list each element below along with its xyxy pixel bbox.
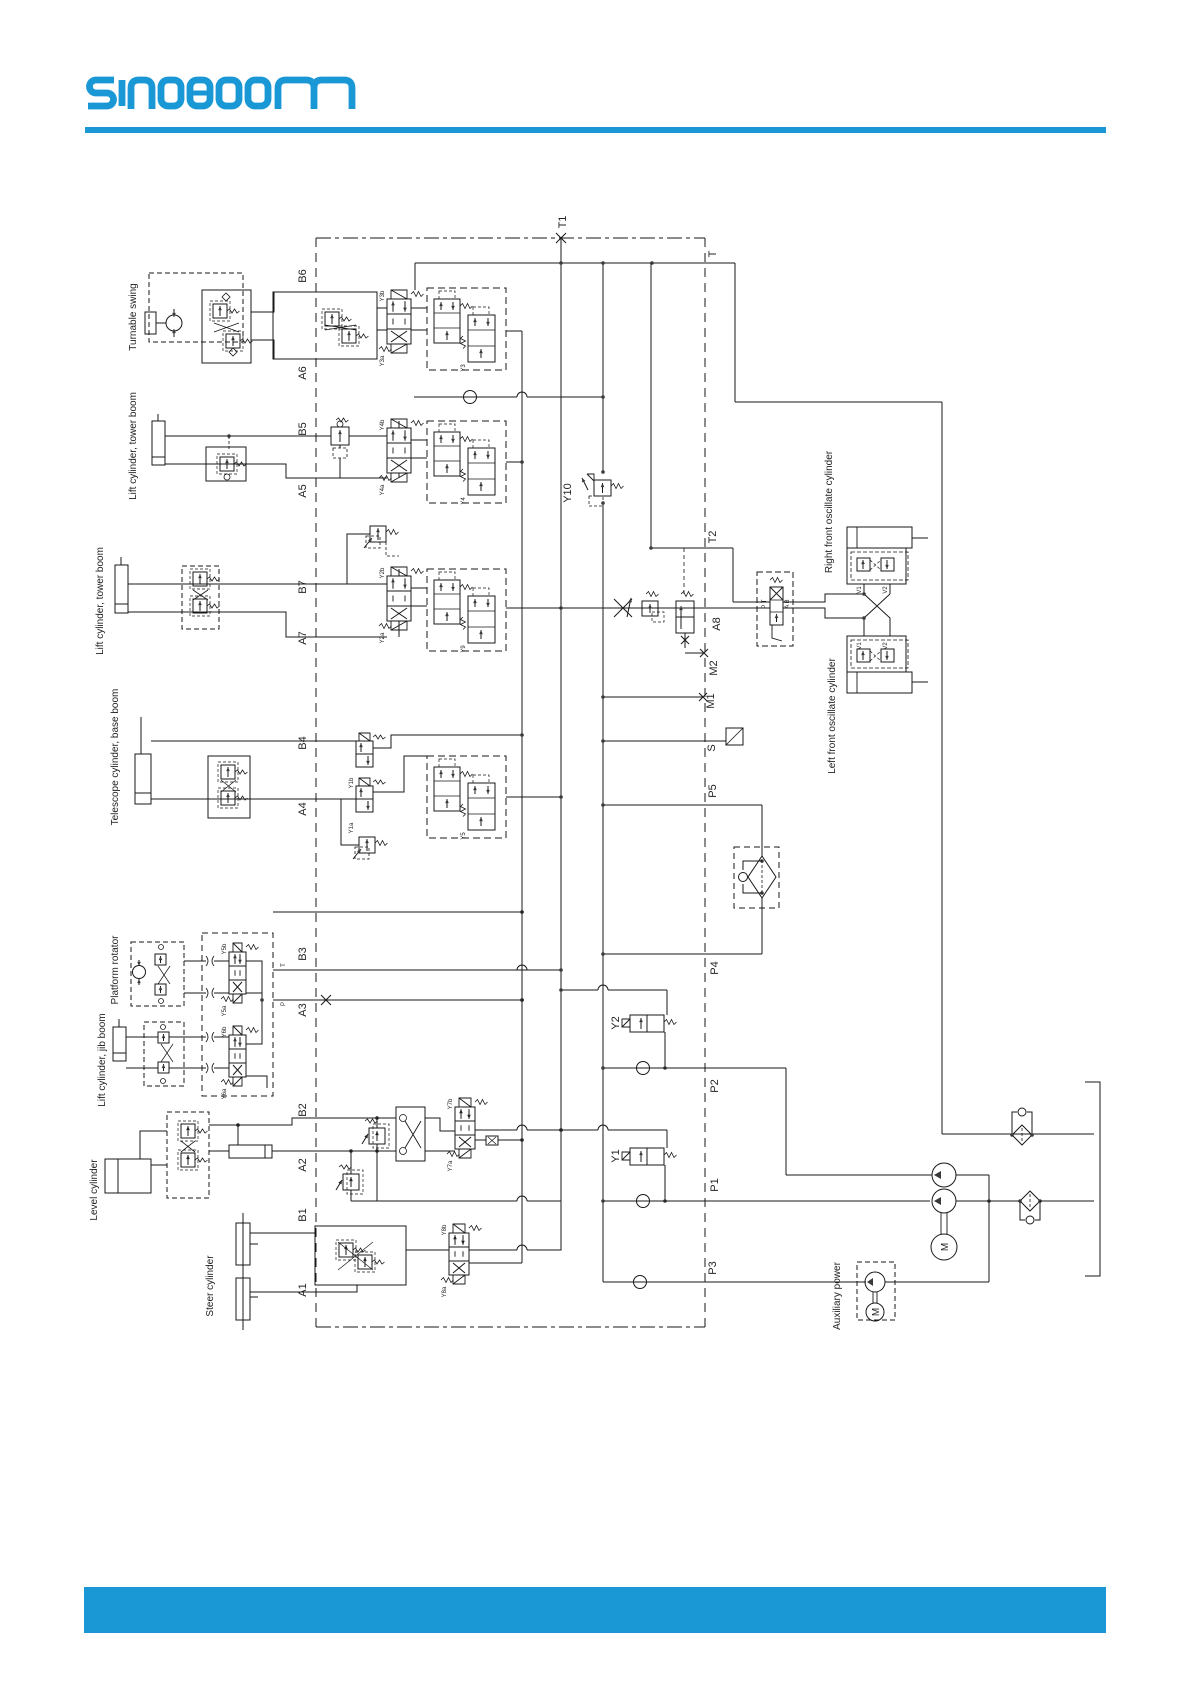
suction strainer [1020,1191,1040,1211]
svg-text:Steer cylinder: Steer cylinder [205,1255,216,1317]
swing brake dashed box [149,273,243,342]
svg-text:B6: B6 [297,269,309,282]
svg-text:A5: A5 [297,484,309,497]
svg-text:Y1b: Y1b [349,777,355,788]
svg-text:A4: A4 [297,802,309,815]
bus x522 [521,331,523,1263]
svg-text:A B: A B [785,599,791,608]
svg-text:Y2b: Y2b [380,567,386,578]
svg-text:B5: B5 [297,422,309,435]
svg-text:A1: A1 [297,1283,309,1296]
tank bracket [1085,1082,1100,1276]
pumps [932,1163,956,1187]
row6 relief 2 [336,1165,363,1194]
oscillate A8 wire [561,607,756,609]
svg-text:P3: P3 [707,1261,719,1274]
Y2 branch [561,989,667,991]
lift cylinder tower [152,414,165,465]
check Y2 [603,1067,786,1069]
svg-text:T1: T1 [557,216,569,229]
valve Y7a/Y7b [447,1098,488,1171]
svg-text:T2: T2 [707,531,719,544]
row6 relief 1 [362,1119,389,1148]
row4 counterbalance [208,756,250,818]
svg-text:A8: A8 [711,617,723,630]
svg-text:V1: V1 [857,586,863,594]
svg-text:P: P [281,1002,287,1006]
lift cylinder tower2 [115,557,128,613]
valve Y1a [349,778,386,833]
svg-text:B3: B3 [297,947,309,960]
svg-text:Lift cylinder, jib boom: Lift cylinder, jib boom [97,1013,108,1106]
wire A7 [128,612,387,637]
turnable swing motor [145,309,182,337]
valve Y6a/Y6b [221,1026,259,1099]
svg-text:B1: B1 [297,1208,309,1221]
cooler bypass [1012,1125,1032,1145]
svg-text:Y8b: Y8b [442,1224,448,1235]
bus x561 [560,238,562,1250]
svg-text:M: M [940,1243,951,1251]
svg-text:B4: B4 [297,736,309,749]
svg-text:Left front oscillate cylinder: Left front oscillate cylinder [827,658,838,774]
P4 wire [761,898,763,954]
steer orbital block [315,1226,406,1285]
valve Y8a/Y8b [441,1224,482,1297]
valve Y4a/Y4b [379,419,424,495]
valve Y3a/Y3b [379,290,424,366]
svg-text:Auxiliary power: Auxiliary power [832,1261,843,1329]
valve block boundary dash-dot [316,238,705,1327]
svg-text:P T: P T [762,599,768,608]
svg-text:Y7a: Y7a [448,1160,454,1171]
svg-text:Y4b: Y4b [380,419,386,430]
jib section riser [273,911,522,913]
svg-text:Y1: Y1 [610,1149,622,1162]
throttle on A8 [614,599,632,617]
svg-text:P1: P1 [709,1178,721,1191]
svg-text:V2: V2 [883,586,889,594]
row2 compensator [427,421,506,505]
svg-text:V1: V1 [857,642,863,650]
solenoid 2/2 on A8 [676,592,703,654]
wire B6 [251,292,274,312]
rotator motor [131,942,184,1006]
svg-text:Y3a: Y3a [380,355,386,366]
svg-text:Lift cylinder, tower boom: Lift cylinder, tower boom [128,392,139,500]
level cylinder [105,1159,151,1193]
wire B2 [209,1118,396,1125]
rotator-jib valve bank box [202,933,273,1096]
steer return wire [351,1200,561,1202]
jib cylinder [113,1019,126,1061]
svg-text:Y10: Y10 [562,483,574,503]
wire A5 [165,464,387,478]
svg-text:A6: A6 [297,366,309,379]
aux power [832,1261,895,1329]
relief on A8 [642,592,664,623]
row1 cross relief block [273,292,377,359]
row3 counterbalance [182,566,220,629]
left front oscillate cylinder [827,636,928,774]
row6 right wire to Y1 [475,1129,561,1131]
A3/P wire [273,999,522,1001]
svg-text:A7: A7 [297,631,309,644]
svg-text:Y6b: Y6b [222,1026,228,1037]
svg-text:Y2: Y2 [610,1016,622,1029]
svg-text:Y6a: Y6a [222,1088,228,1099]
row4 feed risers [373,735,522,748]
wire T main return [415,262,735,264]
bank right collector [246,961,262,1044]
Y1 branch [561,1129,667,1131]
wire B7 [128,583,387,585]
svg-text:Lift cylinder, tower boom: Lift cylinder, tower boom [95,547,106,655]
footer blue bar [84,1587,1106,1633]
wire T2 [651,547,733,549]
row6 left wires [140,1131,167,1159]
junction dots bus 522 [520,910,524,914]
wire A6 [251,340,274,359]
check Y1 / P1 wire [603,1200,930,1202]
svg-text:Y3b: Y3b [380,290,386,301]
P5 wire to filter [603,804,762,806]
svg-text:Y4a: Y4a [380,484,386,495]
svg-text:B7: B7 [297,580,309,593]
oscillate wires [733,601,770,603]
steer right wires [469,1201,561,1250]
row3 mid relief [364,526,399,548]
hop bumps on bus/wires [517,965,527,970]
oscillate control valve [757,572,793,646]
pump outputs [956,1174,989,1176]
svg-text:Y4: Y4 [461,497,467,505]
pressure transducer S [603,740,726,742]
row2 pilot reducer [331,418,349,478]
Y10 valve [562,470,624,506]
svg-text:Y5a: Y5a [222,1005,228,1016]
T1 plug [556,233,566,243]
telescope cylinder [135,717,151,804]
row2 counterbalance [206,436,247,481]
svg-text:S: S [706,744,718,751]
logo SINOBOOM [88,80,352,109]
svg-text:A2: A2 [297,1158,309,1171]
svg-text:Y5: Y5 [461,832,467,840]
swing counterbalance block [202,290,253,363]
svg-text:Y1a: Y1a [349,822,355,833]
jib counterbalance [144,1022,184,1086]
svg-text:Y3: Y3 [461,364,467,372]
svg-text:Platform rotator: Platform rotator [110,935,121,1005]
shuttle X block [396,1107,425,1161]
svg-text:Turnable swing: Turnable swing [128,283,139,350]
motor M [931,1234,957,1260]
valve Y1b [349,733,386,788]
svg-text:A3: A3 [297,1003,309,1016]
svg-text:Level cylinder: Level cylinder [89,1159,100,1221]
row4 compensator [427,756,506,840]
valve Y5a/Y5b [221,943,259,1016]
bus x603 [602,263,604,472]
B3/T wire [273,969,561,971]
svg-text:M2: M2 [708,660,720,675]
right front oscillate cylinder [824,450,928,584]
wire B5 [165,435,331,437]
wire B4 [151,740,356,742]
svg-text:M: M [871,1308,882,1316]
svg-text:P2: P2 [709,1079,721,1092]
bus x651 [650,263,652,548]
M2 port [700,649,708,657]
jib wires with throttles [126,1036,229,1038]
row1 compensator [427,288,506,372]
svg-text:Y7b: Y7b [448,1098,454,1109]
svg-text:Y9: Y9 [461,645,467,653]
steer wires [250,1232,315,1234]
level slave cylinder [229,1145,272,1158]
steer cylinder [236,1213,258,1330]
svg-text:M1: M1 [705,693,717,708]
row6 counterbalance [167,1112,209,1198]
valve Y2b/Y2a [379,567,424,643]
svg-text:B2: B2 [297,1103,309,1116]
svg-text:V2: V2 [883,642,889,650]
svg-text:Y5b: Y5b [222,943,228,954]
svg-text:P4: P4 [709,961,721,974]
svg-text:Y8a: Y8a [442,1286,448,1297]
wire y396 LS [414,396,603,398]
svg-text:T: T [707,250,719,257]
svg-text:Telescope cylinder, base boom: Telescope cylinder, base boom [110,689,121,826]
P3 wire [602,1281,604,1283]
return filter with bypass [734,847,779,908]
svg-text:T: T [281,963,287,967]
row3 compensator [427,569,506,653]
wire A2 [272,1150,396,1152]
rotator wires with throttles [184,960,229,962]
top blue rule [85,127,1106,133]
wire A4 [151,798,356,800]
M1 port [603,696,703,698]
K orifice wire [475,1136,524,1145]
P2 riser [785,1068,787,1175]
svg-text:P5: P5 [707,784,719,797]
row4 relief [353,837,388,859]
svg-text:Right front oscillate cylinder: Right front oscillate cylinder [824,450,835,573]
svg-text:Y2a: Y2a [380,632,386,643]
